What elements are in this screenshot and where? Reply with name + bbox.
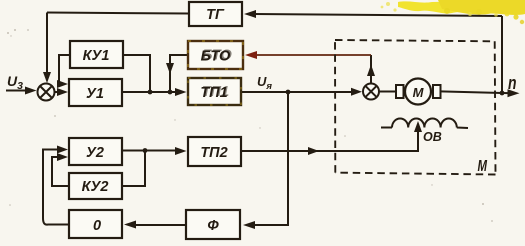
wire: summing junction to U1 [55,91,62,93]
block U2 [69,138,122,165]
motor M: right brush [433,85,441,98]
wire: U2 output to TP2 [122,150,180,152]
arrowhead: into O right side [124,221,136,229]
block TP2 [188,137,241,166]
pale yellow speckles at blob fringe [381,2,498,17]
wire: U2 output tap down to KU2 [122,151,145,187]
arrowhead: up toward BTO feed corner [367,65,375,77]
junction dot at armature line branch [286,90,291,95]
svg-text:БТО: БТО [201,49,231,65]
svg-text:ТП1: ТП1 [200,85,227,101]
arrowhead: output n [508,89,520,97]
field winding OV (inductor humps) [381,119,468,129]
block BTO [188,41,243,69]
wire: motor output to right edge (speed n) [440,91,514,93]
arrowhead: up into field winding OV [414,121,422,132]
wire: branch down from armature line [250,92,288,225]
svg-text:ОВ: ОВ [423,130,442,144]
arrowhead: U3 into summing junction [25,87,37,95]
arrowhead: into F right side [243,221,255,229]
block KU2 [69,173,122,199]
wire: current signal into BTO (red) [250,54,371,56]
dashed box of motor unit M [335,40,496,175]
svg-text:0: 0 [93,218,101,234]
wire: TP2 output to field winding [241,128,418,151]
arrowhead: BTO output pointing down [166,63,174,74]
block F [186,210,240,239]
wire: TP1 output (armature voltage) to mult [241,91,356,93]
block TG [189,2,242,26]
wire: tach feedback vertical right [501,16,503,93]
yellow highlighter blob top right [398,0,525,24]
block KU1 [70,41,123,68]
arrowhead: red into BTO right side [245,51,257,59]
motor M: armature circle [405,79,431,105]
junction dot at motor output / tach tap [500,91,505,96]
arrowhead: into U1 upper (from KU1) [57,80,68,88]
junction dot at BTO output on armature line [168,90,173,95]
wire: BTO output down to armature line [170,55,188,92]
motor M: left brush [396,85,404,98]
arrowhead: into TG right side [244,10,256,18]
wire: U1 output to TP1 [122,91,180,93]
faint scan speckles [7,29,493,222]
wire: current signal up from armature mult [370,55,372,83]
arrowhead: down into summing junction [43,72,51,83]
wire: KU2 output loop (left side) [52,157,69,186]
arrowhead: into U2 upper (from O loop) [57,146,68,154]
arrowhead: mid-line on TP2 output [308,147,319,155]
armature mult junction (circle with X) [363,84,379,100]
wire: TG output vertical down to summing junction [46,13,48,77]
arrowhead: into TP2 [175,147,187,155]
wire: KU1 input tap (right side) [123,55,150,92]
wire: O output loop up to U2 [43,150,69,225]
wire: F output to O [130,224,186,226]
summing junction (circle with X) [38,84,55,101]
arrowhead: into U1 (from summing junction) [57,88,68,96]
svg-text:У2: У2 [86,145,104,161]
svg-text:ТП2: ТП2 [200,145,227,161]
junction dot at U1 output / KU1 tap [148,90,153,95]
wire: mult to motor brush [380,91,397,93]
arrowhead: into armature mult [351,88,362,96]
block TP1 [188,78,241,105]
arrowhead: into U2 lower (from KU2) [57,153,68,161]
svg-text:М: М [413,85,425,100]
svg-text:КУ2: КУ2 [82,179,109,195]
wire: U3 input [6,90,30,92]
block U1 [69,79,122,106]
wire: TG output left horizontal [47,13,189,14]
svg-text:М: М [478,158,488,175]
svg-text:Ф: Ф [207,218,219,234]
arrowhead: into TP1 [175,88,187,96]
svg-text:У1: У1 [86,86,104,102]
svg-text:КУ1: КУ1 [83,48,110,64]
junction dot at U2 output tap [143,148,148,153]
wire: KU1 output loop (left side) [59,55,70,84]
wire: tach feedback top horizontal [247,14,502,16]
svg-text:ТГ: ТГ [206,7,225,23]
svg-text:n: n [508,73,517,93]
block O [69,210,122,238]
